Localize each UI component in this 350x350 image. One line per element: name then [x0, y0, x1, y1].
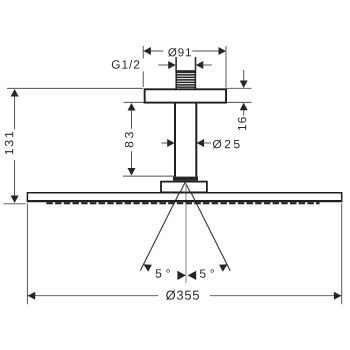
node: dimension 131	[5, 89, 19, 203]
nozzle dashes	[46, 202, 319, 204]
spray centerline	[185, 181, 187, 283]
label 5 deg right	[200, 269, 214, 278]
spray arrow right	[219, 264, 228, 272]
pipe	[174, 102, 176, 176]
node: label G1/2	[112, 60, 212, 69]
node: dimension O25	[161, 139, 239, 149]
spray line right	[185, 181, 230, 271]
angle bowtie arrows	[177, 271, 186, 280]
ceiling flange	[145, 89, 226, 102]
node: dimension O355	[27, 204, 341, 305]
spray arrow left	[143, 264, 152, 272]
spray line left	[140, 181, 185, 271]
wire: extension line 131 bottom	[3, 203, 25, 205]
node: dimension 16	[226, 70, 251, 130]
wire: extension line 131 top	[7, 87, 143, 89]
node: dimension 83	[123, 102, 175, 176]
thread G1/2	[175, 70, 196, 88]
thread nipple upper pipe	[175, 57, 177, 70]
shower plate	[27, 192, 341, 202]
spray lines through connector	[180, 182, 185, 193]
label 5 deg left	[156, 269, 170, 278]
node: dimension O91	[143, 46, 226, 88]
pipe end cap	[173, 177, 198, 181]
connector block	[161, 182, 207, 193]
